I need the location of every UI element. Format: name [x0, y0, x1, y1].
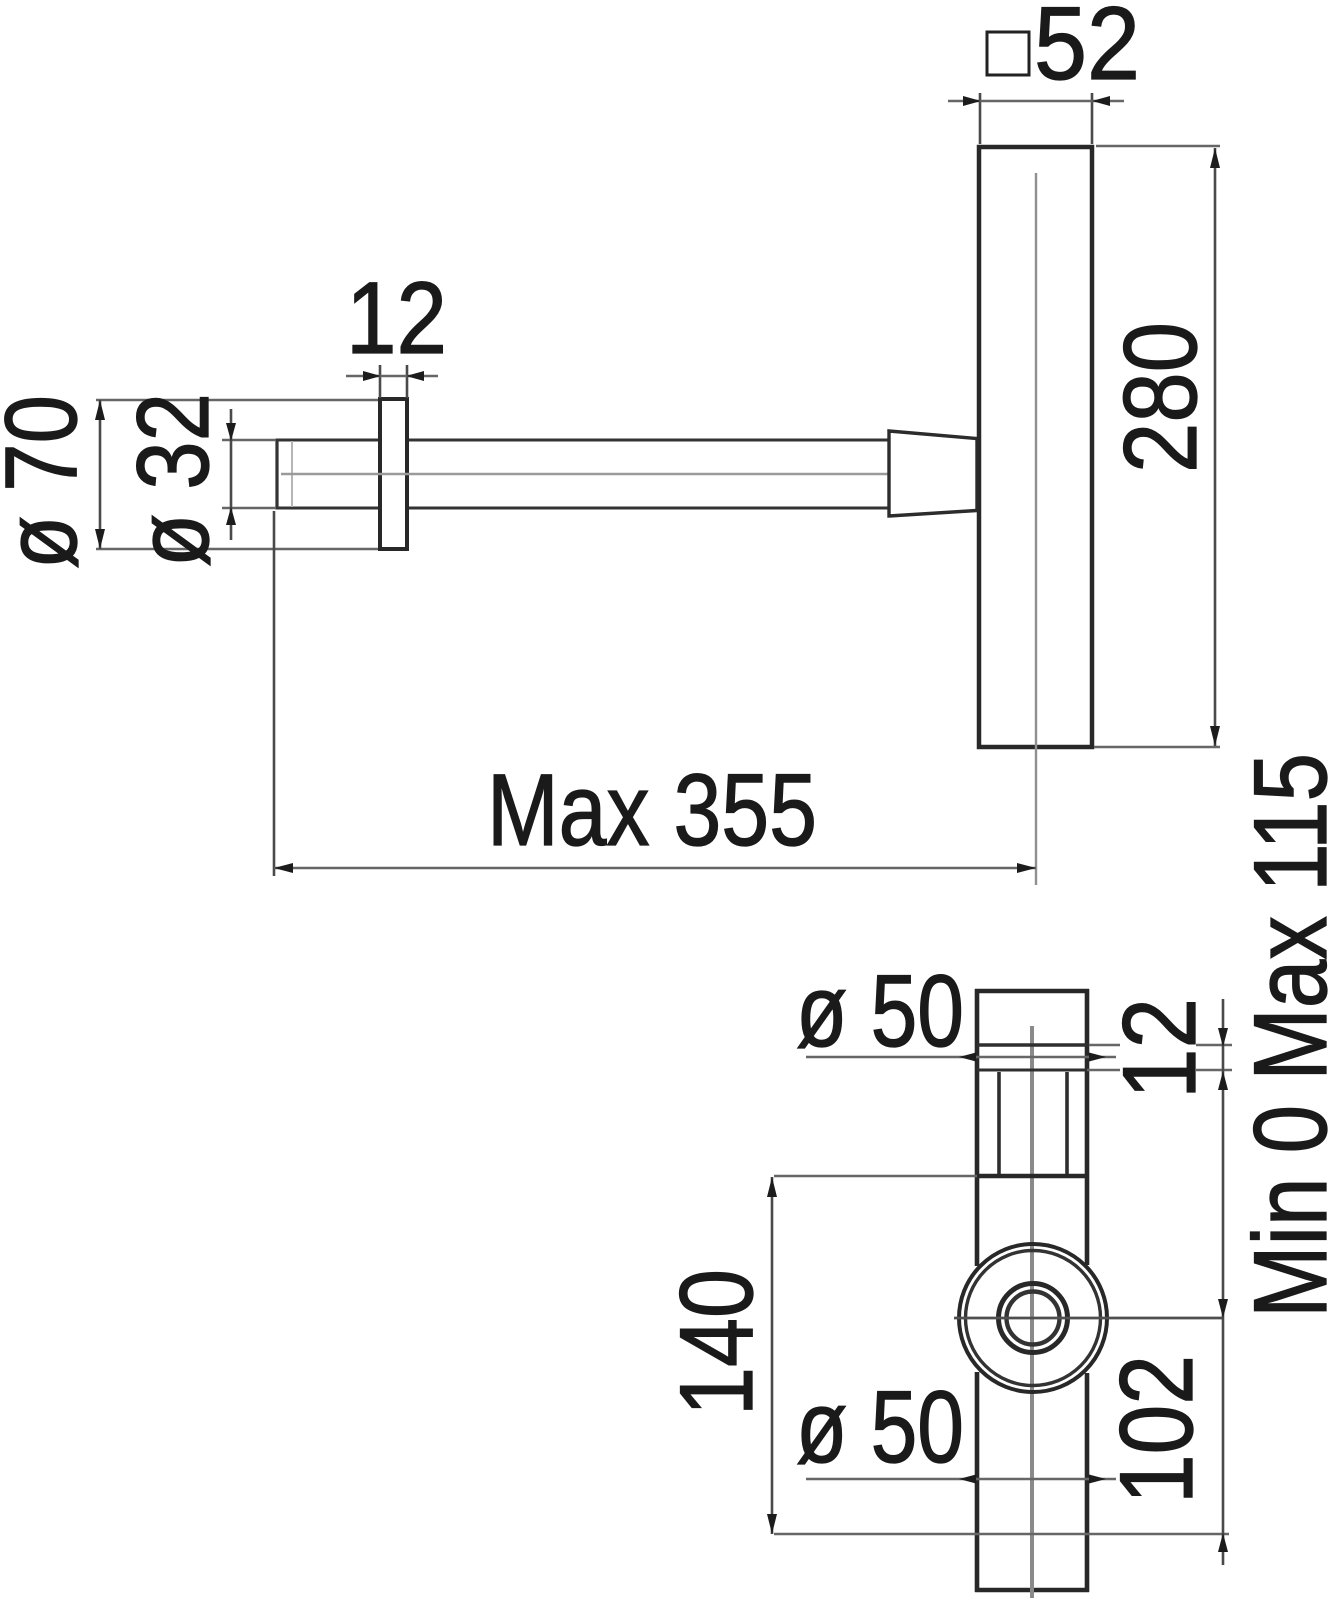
dimension dia50 top: arrows: [959, 1053, 976, 1062]
drain boss outer circle: [959, 1244, 1107, 1392]
dimension dia32: extension lines: [222, 439, 276, 442]
dimension dia70: extension lines: [96, 399, 378, 402]
wall flange on pipe: [380, 399, 407, 549]
threaded recess bottom: [979, 1174, 1085, 1179]
dimension dia50 top: dimension line: [806, 1056, 1116, 1059]
dimension 12 flange: arrows: [363, 371, 381, 381]
dimension 280: dimension line: [1214, 148, 1217, 746]
dimension 140: dimension line: [771, 1177, 774, 1534]
svg-text:Min 0 Max 115: Min 0 Max 115: [1233, 753, 1344, 1318]
threaded recess right wall: [1065, 1072, 1069, 1176]
body vertical centerline (front view): [1030, 1026, 1034, 1598]
arrows on right dimension line: [1218, 1028, 1228, 1047]
dimension dia70: arrows: [95, 400, 105, 420]
dimension dia50 bottom: arrows: [959, 1475, 976, 1484]
svg-text:52: 52: [1034, 0, 1140, 102]
drain boss horizontal centerline: [954, 1317, 1222, 1320]
dimension 12 flange: dimension line: [346, 375, 438, 378]
threaded recess left wall: [997, 1072, 1001, 1176]
svg-text:12: 12: [346, 261, 447, 375]
pipe horizontal outlet (side view): [277, 439, 888, 510]
dimension 280: arrows: [1210, 148, 1220, 168]
dimension square-52: dimension line: [948, 100, 1124, 103]
dimension Max355: dimension line: [274, 867, 1036, 870]
siphon body (front view) outline: [975, 989, 1089, 1592]
dimension dia70: dimension line: [99, 400, 102, 549]
svg-text:280: 280: [1103, 322, 1219, 473]
square symbol of 52 label: [987, 32, 1029, 75]
pipe centerline: [281, 473, 896, 475]
tapered cone connector: [889, 431, 977, 516]
dimension 140: top extension line: [774, 1175, 977, 1178]
svg-text:ø 50: ø 50: [796, 1370, 964, 1484]
dimension Max355: arrows: [274, 863, 293, 873]
dimension square-52: arrows: [963, 96, 981, 106]
dimension dia32: dimension line: [230, 409, 233, 540]
svg-text:140: 140: [659, 1269, 775, 1416]
drain hole inner ring: [1007, 1292, 1060, 1345]
dimension dia50 bottom: dimension line: [806, 1478, 1116, 1481]
right dimension line (12 / Min0Max115 / 102): [1222, 999, 1225, 1565]
svg-text:ø 32: ø 32: [116, 393, 230, 567]
dimension dia32: arrows: [226, 423, 236, 441]
drain hole outer ring: [999, 1284, 1068, 1353]
svg-text:102: 102: [1099, 1355, 1215, 1504]
body vertical centerline / Max355 right extension: [1035, 173, 1037, 885]
dimension 280: extension lines: [1096, 145, 1220, 148]
top face line + extension: [977, 1043, 1089, 1046]
drain boss outer circle inner ring: [966, 1251, 1101, 1386]
svg-text:ø 70: ø 70: [0, 395, 98, 569]
dimension Max355: left extension line: [273, 511, 276, 876]
dimension square-52: extension lines: [979, 93, 982, 144]
dimension 12 flange: extension lines: [379, 365, 382, 398]
svg-text:Max 355: Max 355: [487, 753, 817, 867]
dimension 140: arrows: [767, 1177, 777, 1197]
bottom shared extension line 140/102: [774, 1533, 1229, 1536]
wall face line + extensions: [977, 1069, 1087, 1072]
siphon body (side view): [979, 147, 1092, 747]
svg-text:12: 12: [1102, 998, 1218, 1099]
svg-text:ø 50: ø 50: [796, 954, 964, 1068]
